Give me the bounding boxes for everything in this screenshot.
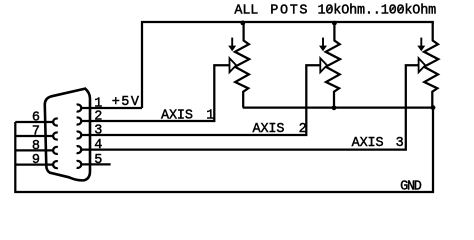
pot R1 wiper arrow [230, 58, 237, 72]
svg-text:7: 7 [32, 125, 40, 140]
title label ALL POTS 10kOhm..100kOhm [234, 4, 436, 19]
pin 8 arc [53, 147, 58, 154]
svg-text:2: 2 [94, 110, 102, 125]
svg-text:10kOhm..100kOhm: 10kOhm..100kOhm [318, 4, 437, 19]
pin 5 arc [77, 161, 82, 168]
svg-text:POTS: POTS [270, 4, 307, 19]
svg-text:AXIS: AXIS [161, 109, 193, 124]
wire pin7 [15, 135, 53, 137]
junction dot pot2 bottom [332, 105, 337, 110]
wire +5V rail top [142, 22, 434, 108]
svg-text:+5V: +5V [112, 95, 140, 110]
connector J1 DB9 body [45, 89, 90, 181]
svg-text:3: 3 [94, 123, 102, 138]
wire pin5 stub [81, 163, 111, 165]
svg-text:6: 6 [32, 111, 40, 126]
wire AXIS 3 (pin4 to pot3 wiper) [81, 65, 419, 149]
svg-text:2: 2 [299, 122, 307, 137]
potentiometer R3 body [424, 23, 438, 108]
wire pin1 +5V [81, 107, 142, 109]
wire AXIS 1 (pin2 to pot1 wiper) [81, 65, 230, 121]
svg-text:AXIS: AXIS [352, 136, 384, 151]
svg-text:1: 1 [206, 109, 214, 124]
pin 1 arc [77, 105, 82, 112]
svg-text:3: 3 [396, 136, 404, 151]
svg-text:AXIS: AXIS [253, 122, 285, 137]
junction dot pot1 top [240, 21, 245, 26]
svg-text:9: 9 [32, 153, 40, 168]
pin 7 arc [53, 133, 58, 140]
wire pot bottoms bus [243, 106, 433, 108]
svg-text:GND: GND [400, 180, 422, 195]
wire pin6 [15, 121, 53, 123]
svg-text:8: 8 [32, 139, 40, 154]
svg-text:ALL: ALL [234, 4, 258, 19]
potentiometer R1 body [235, 23, 249, 108]
pin 9 arc [53, 161, 58, 168]
junction dot pot3 bottom [431, 105, 436, 110]
pot R1 adjust arrow [228, 38, 236, 52]
wire pin9 [15, 163, 53, 165]
wire ground bus left (pins 6-9) [15, 108, 433, 192]
pot R2 adjust arrow [319, 38, 327, 52]
pin 6 arc [53, 119, 58, 126]
slashed zero marks [327, 6, 332, 12]
pin 2 arc [77, 118, 82, 125]
junction dot pot2 top [332, 21, 337, 26]
potentiometer R2 body [326, 23, 340, 108]
pin 3 arc [77, 132, 82, 139]
wire AXIS 2 (pin3 to pot2 wiper) [81, 65, 320, 135]
pot R3 adjust arrow [417, 38, 425, 52]
svg-text:5: 5 [94, 153, 102, 168]
pot R2 wiper arrow [320, 58, 327, 72]
pin 4 arc [77, 146, 82, 153]
svg-text:4: 4 [94, 138, 102, 153]
pot R3 wiper arrow [419, 58, 426, 72]
wire pin8 [15, 149, 53, 151]
